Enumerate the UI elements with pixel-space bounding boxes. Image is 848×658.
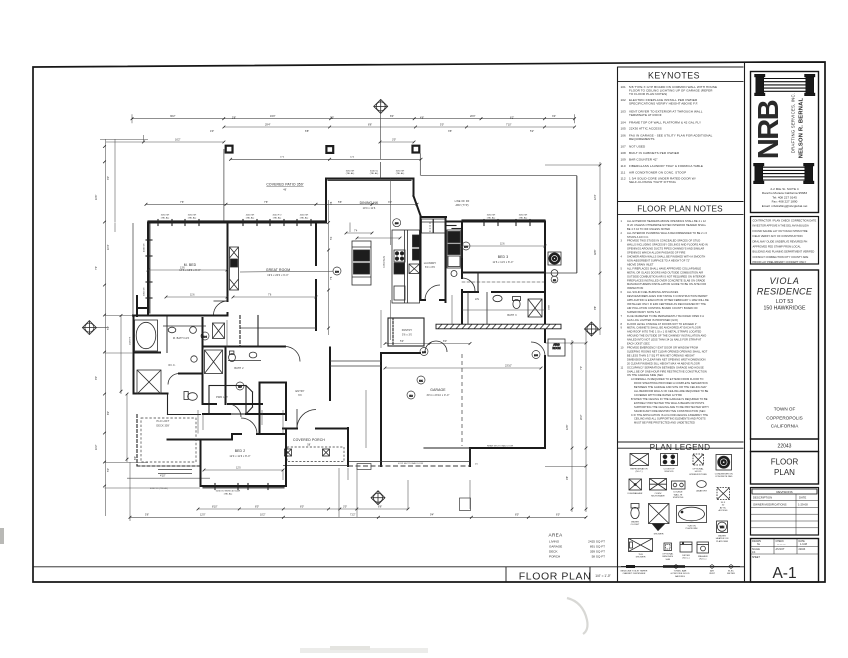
svg-text:HEATER ON: HEATER ON (716, 537, 729, 540)
svg-text:5'0": 5'0" (107, 468, 110, 472)
svg-text:REFRIGERATOR: REFRIGERATOR (630, 468, 648, 471)
svg-text:BAR COUNTER 42": BAR COUNTER 42" (629, 157, 658, 161)
more dim labels left column (107, 176, 110, 472)
svg-text:13'6: 13'6 (180, 266, 185, 269)
svg-text:14'6 x 13'6 x 9'-0": 14'6 x 13'6 x 9'-0" (179, 269, 200, 272)
svg-text:6'0: 6'0 (298, 394, 302, 397)
sheet inner bottom line (33, 566, 745, 568)
patio roof edge right wing (421, 176, 577, 273)
svg-text:BE 4 X 10 TO IDF UNLESS NOTED: BE 4 X 10 TO IDF UNLESS NOTED (627, 228, 670, 231)
rotated window labels left wall (130, 243, 146, 345)
svg-text:APPROVED FED STAMP FROM LOCAL: APPROVED FED STAMP FROM LOCAL (753, 245, 802, 249)
svg-text:107: 107 (621, 145, 627, 149)
svg-text:(N.I.C.): (N.I.C.) (699, 559, 706, 561)
crosshair marker right (585, 322, 599, 336)
patio post3 connector (419, 154, 421, 176)
svg-text:5040 SL: 5040 SL (370, 171, 379, 173)
svg-text:7'4": 7'4" (95, 266, 98, 270)
svg-text:106: 106 (621, 134, 627, 138)
keynote items (621, 85, 718, 184)
porch post 1 (285, 449, 292, 456)
bath3 fixtures (468, 292, 542, 326)
svg-text:PLATFORM: PLATFORM (686, 527, 698, 530)
svg-text:9'4": 9'4" (430, 514, 434, 517)
svg-text:3050 SH: 3050 SH (396, 171, 405, 173)
svg-text:TUB: TUB (638, 554, 643, 556)
svg-text:30'4 x 23'10 x 9'-0": 30'4 x 23'10 x 9'-0" (427, 394, 450, 397)
svg-text:AIR: AIR (710, 570, 714, 573)
hall toilet (184, 392, 197, 401)
svg-text:22043: 22043 (778, 444, 792, 450)
bath2 wall block (179, 347, 226, 405)
svg-text:NAILED INTO NOT LESS THAN 34 2: NAILED INTO NOT LESS THAN 34 2d NAILS FO… (627, 339, 702, 342)
svg-text:4'6": 4'6" (420, 117, 424, 120)
svg-text:2668: 2668 (549, 304, 551, 310)
top dimension line 2 (224, 126, 575, 128)
keynote bubbles (201, 219, 558, 399)
bottom dimension lines (127, 462, 586, 521)
room label bed3 (492, 255, 513, 264)
master bed bottom wall (133, 315, 228, 317)
svg-text:CALIFORNIA: CALIFORNIA (771, 424, 800, 429)
svg-text:TOWEL BAR: TOWEL BAR (674, 570, 687, 573)
svg-text:4040 SH: 4040 SH (300, 215, 309, 217)
condenser symbol (716, 455, 732, 471)
svg-text:CONDENSER ON: CONDENSER ON (715, 474, 733, 476)
svg-text:20'2": 20'2" (580, 414, 583, 420)
m bath block walls (134, 296, 263, 404)
disclaimer box (751, 217, 819, 265)
svg-text:110: 110 (621, 164, 626, 168)
porch slab dashed (287, 447, 344, 462)
dimension tick marks left/bottom/right (103, 145, 601, 519)
svg-text:ELEC: ELEC (728, 571, 734, 573)
svg-text:4030 XO (TBL AL): 4030 XO (TBL AL) (150, 487, 168, 490)
svg-text:4040 F.O: 4040 F.O (273, 215, 282, 217)
svg-text:COVERED WITH FIRE RATED GYP BD: COVERED WITH FIRE RATED GYP BD (634, 394, 682, 397)
svg-text:3050 SH: 3050 SH (487, 215, 496, 217)
svg-text:5030 XO WDW 40 SLDR: 5030 XO WDW 40 SLDR (216, 491, 241, 493)
svg-text:CONCRETE PAD: CONCRETE PAD (715, 475, 733, 478)
svg-text:DATE: DATE (799, 496, 806, 500)
svg-text:LAUNDRY: LAUNDRY (424, 262, 437, 265)
lavatory symbol (697, 481, 707, 488)
svg-text:SHOWER: SHOWER (654, 534, 664, 536)
more top dim labels (210, 117, 534, 133)
dining north wall (326, 179, 446, 223)
hall walls center (203, 347, 348, 467)
svg-text:LIN: LIN (475, 298, 479, 301)
window ticks left wall (146, 240, 152, 298)
svg-text:DECK 359': DECK 359' (156, 425, 170, 428)
svg-text:5'6": 5'6" (145, 514, 149, 517)
bed3 door arc (462, 278, 475, 291)
svg-text:4X12 SECTIONAL DOOR: 4X12 SECTIONAL DOOR (398, 462, 424, 465)
svg-text:EACH JOIST (SEC: EACH JOIST (SEC (627, 343, 650, 346)
svg-text:6'0": 6'0" (556, 514, 560, 517)
bed2 door arc (241, 418, 257, 434)
svg-text:DISHWASHER: DISHWASHER (628, 492, 643, 495)
sheet outer border (33, 62, 825, 582)
scan artifacts (0, 528, 588, 653)
svg-text:APPLICATION & EXECUTION OTHER: APPLICATION & EXECUTION OTHER FEBRUARY 1… (627, 299, 709, 302)
svg-text:ACCESS: ACCESS (719, 509, 729, 512)
laundry walls (421, 217, 446, 302)
svg-text:8'0": 8'0" (515, 514, 519, 517)
svg-text:12'6": 12'6" (566, 424, 569, 430)
patio edge jog (380, 162, 382, 179)
svg-text:5'6": 5'6" (338, 201, 342, 204)
svg-text:PANTRY: PANTRY (402, 329, 413, 332)
top dimension stub left (106, 141, 224, 143)
fireplace unit (230, 247, 239, 290)
svg-text:TOWN OF: TOWN OF (774, 407, 796, 412)
kitchen right appliance column (447, 230, 461, 277)
patio post 3 (411, 145, 420, 154)
svg-text:5'4": 5'4" (400, 340, 404, 343)
tub shower symbol (629, 539, 653, 552)
svg-text:22X30 ATTIC ACCESS: 22X30 ATTIC ACCESS (629, 126, 662, 130)
svg-text:ENTRY: ENTRY (296, 390, 305, 393)
svg-text:BETWEEN THE GARAGE AND SITE OR: BETWEEN THE GARAGE AND SITE OR THE CEILI… (634, 386, 707, 389)
patio post 1 (225, 145, 234, 154)
great room cased opening line (240, 327, 316, 329)
svg-text:DRYER: DRYER (682, 555, 690, 557)
svg-text:WH: WH (720, 525, 724, 529)
svg-text:SELF-CLOSING TIGHT FITTING: SELF-CLOSING TIGHT FITTING (629, 180, 677, 184)
bed3 walls (462, 222, 545, 343)
svg-text:NON-ABSORBENT SURFACE TO A HEI: NON-ABSORBENT SURFACE TO A HEIGHT OF 72" (627, 260, 690, 263)
shower symbol (649, 504, 670, 524)
wc door arc (168, 374, 179, 385)
garage walls (381, 353, 545, 466)
NRB column graphic bottom (754, 164, 814, 184)
svg-text:COVERED PATIO 359': COVERED PATIO 359' (266, 183, 304, 187)
svg-text:7'6": 7'6" (180, 201, 184, 204)
svg-text:1-29-08: 1-29-08 (798, 503, 808, 507)
cooktop symbol (661, 454, 678, 466)
svg-text:OPENINGS AROUND DUCTS PIPES: OPENINGS AROUND DUCTS PIPES CHIMNEYS AND… (627, 248, 704, 251)
svg-text:ALL SOLID FUEL BURNING APPLIAN: ALL SOLID FUEL BURNING APPLIANCES (627, 291, 679, 294)
room label dining (360, 201, 379, 210)
svg-text:OPTIONAL: OPTIONAL (692, 468, 704, 471)
sheet number box (751, 539, 819, 583)
svg-text:COOKTOP: COOKTOP (664, 469, 675, 471)
small marks top-left corner of wall (143, 135, 145, 142)
patio post 2 (325, 145, 334, 154)
svg-text:VIOLA: VIOLA (769, 276, 799, 286)
svg-text:FRAME TOP OF WALL PLATFORM & 4: FRAME TOP OF WALL PLATFORM & 42 GAL FLY (629, 120, 701, 124)
svg-text:NELSON R. BERNAL: NELSON R. BERNAL (799, 97, 805, 158)
air room box (548, 339, 565, 356)
svg-text:CONTRACTOR / PLAN CHECK CORREC: CONTRACTOR / PLAN CHECK CORRECTION DATE (753, 219, 817, 223)
porch line (283, 465, 348, 467)
bed2 window ticks (203, 487, 284, 489)
m bath shower big (137, 370, 161, 394)
legend row 2 (629, 479, 730, 500)
svg-text:3'0": 3'0" (388, 201, 392, 204)
svg-text:5'0": 5'0" (440, 123, 444, 126)
svg-text:WALL HI: WALL HI (674, 493, 683, 496)
garage firewall hatched band (436, 324, 561, 329)
water heater symbol (717, 521, 728, 533)
window ticks bed2 bottom wall (215, 484, 268, 490)
extra dim texture: left bath dims (105, 223, 201, 489)
svg-text:SPECIFICATIONS VERIFY HEIGHT: SPECIFICATIONS VERIFY HEIGHT ABOVE F.F. (629, 102, 698, 106)
svg-text:OUTSIDE COMBUSTION AIR IS NOT: OUTSIDE COMBUSTION AIR IS NOT REQUIRED O… (627, 275, 706, 278)
svg-text:PLO LOFT: PLO LOFT (157, 420, 170, 423)
area table (549, 533, 606, 559)
window labels above back wall (161, 171, 528, 220)
m bath small shower (213, 323, 225, 339)
svg-text:2425 SQ FT: 2425 SQ FT (588, 540, 605, 544)
svg-text:10'4": 10'4" (107, 244, 110, 250)
room label garage (427, 388, 450, 397)
svg-text:6'2": 6'2" (510, 117, 514, 120)
svg-text:A FIREWALL IS REQUIRED TO EXT: A FIREWALL IS REQUIRED TO EXTEND FROM FL… (631, 378, 703, 381)
svg-text:FIBERGLASS LAUNDRY TRAY & FORM: FIBERGLASS LAUNDRY TRAY & FORMICA TABLE (629, 164, 703, 168)
svg-text:METAL OR GLASS DOORS AND OUTSI: METAL OR GLASS DOORS AND OUTSIDE COMBUST… (627, 271, 703, 274)
exterior back wall (148, 222, 545, 223)
svg-text:PORCH: PORCH (549, 555, 560, 559)
dimension line above bedroom wall (146, 203, 417, 205)
svg-text:AIR CONDITIONER ON CONC. STOOP: AIR CONDITIONER ON CONC. STOOP (629, 170, 686, 174)
svg-text:3'0": 3'0" (343, 505, 347, 508)
svg-text:30 X: 30 X (721, 502, 726, 504)
svg-text:1-3-08: 1-3-08 (800, 543, 808, 546)
optional benches symbol (664, 543, 672, 551)
svg-text:SHOWER: SHOWER (636, 557, 646, 559)
svg-text:KEYNOTES: KEYNOTES (648, 71, 700, 81)
svg-text:DESCRIPTION: DESCRIPTION (753, 496, 772, 500)
crosshair marker bottom (371, 491, 385, 505)
dishwasher symbol (629, 479, 642, 490)
svg-text:112: 112 (621, 176, 626, 180)
misc small dims in plan (329, 200, 546, 335)
svg-text:ALL FIREPLACES SHALL HAVE APPR: ALL FIREPLACES SHALL HAVE APPROVED COLLA… (627, 267, 702, 270)
svg-text:4040 SH: 4040 SH (144, 243, 146, 252)
svg-text:GARAGE: GARAGE (430, 388, 446, 392)
svg-text:PLAN: PLAN (774, 468, 795, 477)
svg-text:ATTIC: ATTIC (720, 506, 727, 509)
pantry double door arcs (425, 341, 436, 352)
step pad at garage front (460, 498, 471, 511)
condenser unit (548, 252, 561, 276)
svg-text:46': 46' (283, 189, 287, 192)
svg-text:3050 SH: 3050 SH (144, 287, 146, 296)
oven microwave symbol (650, 479, 667, 491)
right side small dims near garage door (339, 467, 586, 518)
svg-text:9'0": 9'0" (95, 376, 98, 380)
dimension labels bottom/left/right (95, 195, 597, 517)
water closet symbol (631, 504, 639, 509)
svg-text:GARAGE: GARAGE (549, 545, 562, 549)
svg-text:6'0 x 8'0: 6'0 x 8'0 (425, 266, 436, 269)
svg-text:8'0": 8'0" (255, 505, 259, 508)
svg-text:3050 SH: 3050 SH (188, 215, 197, 217)
svg-text:4'10": 4'10" (160, 475, 166, 478)
svg-text:INVESTOR APPOVE A THE DEL AVV: INVESTOR APPOVE A THE DEL AVVA BULIDA (753, 224, 809, 228)
svg-text:3050 SH: 3050 SH (161, 215, 170, 217)
svg-text:HOOD: HOOD (695, 471, 702, 473)
svg-text:(TBL AL): (TBL AL) (224, 492, 233, 495)
master bed left wall (147, 223, 149, 316)
svg-text:11'6 x 11'0 x 8'-0": 11'6 x 11'0 x 8'-0" (492, 261, 513, 264)
svg-text:1/4" = 1'-0": 1/4" = 1'-0" (595, 574, 611, 578)
svg-text:12'0": 12'0" (200, 514, 206, 517)
svg-text:B WHEN THE CEILING IN THE GAR: B WHEN THE CEILING IN THE GARAGE IS REQU… (631, 398, 708, 401)
svg-text:ROOF SHEATHING PROVIDED A COMP: ROOF SHEATHING PROVIDED A COMPLETE SEPAR… (634, 382, 708, 385)
svg-text:TO FLOOR PLAN NOTES): TO FLOOR PLAN NOTES) (629, 92, 667, 96)
great room right wall (315, 223, 317, 331)
svg-text:CABINET DISPENSER: CABINET DISPENSER (623, 572, 646, 575)
svg-text:WALLS INCLUDING SPACES BY CEIL: WALLS INCLUDING SPACES BY CEILINGS AND F… (627, 244, 708, 247)
svg-text:3'0": 3'0" (107, 176, 110, 180)
svg-text:WATER: WATER (631, 521, 639, 524)
svg-text:ABOVE DRAIN INLET: ABOVE DRAIN INLET (627, 264, 654, 267)
svg-text:DEVICES/FIREPLACES FOR TAHOE: DEVICES/FIREPLACES FOR TAHOE X CONSTRUCT… (627, 295, 708, 298)
svg-text:FLOOR LEVEL CHANGE AT DOORS N: FLOOR LEVEL CHANGE AT DOORS NOT TO EXCEE… (627, 323, 697, 326)
bath2 sinks (228, 351, 261, 362)
NRB column graphic top (755, 75, 815, 96)
label covered patio (266, 183, 304, 192)
extra interior dim lines (148, 246, 462, 470)
svg-text:METAL CABINETS SHALL BE ANCHOR: METAL CABINETS SHALL BE ANCHORED AT EACH… (627, 327, 701, 330)
svg-text:BACKING: BACKING (675, 575, 685, 578)
top dimension line 1 (132, 114, 575, 123)
NRB logo box (751, 72, 819, 213)
room label pantry (402, 329, 413, 337)
svg-text:(TBL AL): (TBL AL) (246, 216, 255, 219)
entry door arc (297, 410, 316, 429)
closet lines (240, 316, 258, 347)
svg-text:10'0 x 11'6: 10'0 x 11'6 (363, 207, 376, 210)
hall thin lines (330, 360, 381, 362)
wic sink (191, 356, 197, 362)
svg-text:(TBL AL): (TBL AL) (273, 216, 282, 219)
svg-text:AIR POLLUTION CONTROL BOARD C: AIR POLLUTION CONTROL BOARD COUNTY BOARD… (627, 307, 698, 310)
svg-text:COPPEROPOLIS: COPPEROPOLIS (766, 416, 803, 421)
svg-text:8'0": 8'0" (300, 505, 304, 508)
svg-text:TERMINATE AT ROOF: TERMINATE AT ROOF (629, 113, 662, 117)
svg-text:104: 104 (621, 120, 627, 124)
svg-text:BE LESS THAN 5.7 SQ FT MIN: BE LESS THAN 5.7 SQ FT MIN NET OPENING H… (627, 355, 695, 358)
patio edge line (231, 158, 421, 160)
window sill ticks on back wall (158, 220, 530, 226)
svg-text:11'6": 11'6" (95, 195, 98, 200)
svg-text:SHB: SHB (666, 559, 671, 561)
sliding door at kitchen hall (446, 226, 462, 229)
refrigerator symbol (630, 454, 649, 466)
svg-text:AND ROOF INTO THE 1 SI x 1 IS: AND ROOF INTO THE 1 SI x 1 IS METAL STRA… (627, 331, 702, 334)
svg-text:BUILT IN CABINETS PER OWNER: BUILT IN CABINETS PER OWNER (629, 151, 680, 155)
svg-text:891 SQ FT: 891 SQ FT (590, 545, 605, 549)
svg-text:AROUND THE OUTSIDE OF THE CHIM: AROUND THE OUTSIDE OF THE CHIMNEY INSTAL… (627, 335, 706, 338)
svg-text:VENT: VENT (709, 573, 715, 575)
svg-text:19'4 x 20'0 x 9'-0": 19'4 x 20'0 x 9'-0" (267, 274, 288, 277)
dryer symbol (680, 542, 692, 552)
dimension labels top (170, 115, 556, 204)
svg-text:FLOOR PLAN NOTES: FLOOR PLAN NOTES (637, 205, 723, 214)
svg-text:PROVIDE TWO STUDS IN CONCEALED: PROVIDE TWO STUDS IN CONCEALED SPACES OF… (627, 240, 700, 243)
svg-text:FIELD VERIFY ANY OF CONSTRUCT: FIELD VERIFY ANY OF CONSTRUCTION (753, 234, 803, 238)
svg-text:12'0: 12'0 (236, 466, 241, 469)
tub on platform symbol (677, 506, 707, 523)
svg-text:FIREPLACES INSTALLED OVER CONC: FIREPLACES INSTALLED OVER CONCRETE SLAB … (627, 279, 706, 282)
svg-text:OWNER MODIFICATIONS: OWNER MODIFICATIONS (753, 503, 787, 507)
svg-text:DINING NK: DINING NK (360, 201, 379, 205)
svg-text:NOT USED: NOT USED (629, 145, 646, 149)
svg-text:AREA: AREA (549, 533, 564, 538)
svg-text:101: 101 (621, 85, 627, 89)
svg-text:7'0": 7'0" (580, 366, 583, 370)
svg-text:359 SQ FT: 359 SQ FT (590, 550, 605, 554)
svg-text:FLUE DIAMETER TO BE PERMANENTL: FLUE DIAMETER TO BE PERMANENTLY BLOCKED … (627, 315, 704, 318)
svg-text:108: 108 (621, 151, 627, 155)
rotated labels right wall (549, 304, 551, 310)
svg-text:BENCHES: BENCHES (663, 556, 674, 558)
svg-text:9'8": 9'8" (594, 306, 597, 310)
washer dryer (422, 219, 446, 233)
svg-text:C IF THE APPLICATION IS A FLO: C IF THE APPLICATION IS A FLOOR-CEILING … (631, 414, 708, 417)
address block (762, 187, 808, 208)
room label covered porch (293, 438, 325, 447)
svg-text:150 HAWKRIDGE: 150 HAWKRIDGE (764, 306, 806, 312)
svg-text:SIGNIFICANT FIRE RESTRICTIVE C: SIGNIFICANT FIRE RESTRICTIVE CONSTRUCTIO… (634, 410, 706, 413)
svg-text:KITCHEN: KITCHEN (383, 256, 386, 268)
svg-text:TUB ON: TUB ON (687, 526, 696, 528)
svg-text:PLAN LEGEND: PLAN LEGEND (650, 443, 711, 452)
svg-text:23'10": 23'10" (505, 364, 512, 367)
svg-text:M. BED: M. BED (184, 263, 197, 267)
svg-text:FLOOR PLAN: FLOOR PLAN (519, 571, 592, 583)
svg-text:CLOSET: CLOSET (631, 524, 640, 526)
window ticks on back wall (148, 220, 545, 221)
right column divider (744, 62, 746, 582)
svg-text:4'6": 4'6" (566, 476, 569, 480)
bottom extra labels (145, 514, 560, 517)
svg-text:CEILING AND ALL SUPPORTING ELE: CEILING AND ALL SUPPORTING ELEMENTS AND … (634, 418, 706, 421)
svg-text:ALL BEDROOM WALLS OF CEILING: ALL BEDROOM WALLS OF CEILING ARE REQUIRE… (634, 390, 709, 393)
svg-text:OPENINGS WHICH ALLOW PASSAGE O: OPENINGS WHICH ALLOW PASSAGE OF FIRE (627, 252, 686, 255)
svg-text:MICROWAVE: MICROWAVE (651, 495, 665, 498)
svg-text:3050 SH: 3050 SH (519, 215, 528, 217)
interior dim strings middle (166, 179, 545, 449)
svg-text:SHALL BE OF ONE-HOUR FIRE REST: SHALL BE OF ONE-HOUR FIRE RESTRICTIVE CO… (627, 370, 707, 373)
svg-text:W/HOOD: W/HOOD (664, 471, 674, 473)
porch walls (283, 428, 348, 430)
svg-text:RESIDENCE: RESIDENCE (757, 287, 813, 297)
svg-text:PRIOR LAY PRELIMINARY CONCEPT: PRIOR LAY PRELIMINARY CONCEPT ONLY (753, 260, 807, 264)
sheet title box (751, 452, 819, 485)
washer symbol (697, 542, 709, 553)
notes column left divider (617, 67, 619, 582)
svg-text:ALL EXTERIOR HEADERS ABOVE OPE: ALL EXTERIOR HEADERS ABOVE OPENINGS SHAL… (627, 220, 706, 223)
svg-text:7'6": 7'6" (264, 201, 268, 204)
svg-text:58': 58' (307, 444, 311, 447)
room label entry (296, 390, 305, 397)
bed3 closet lines (462, 273, 545, 293)
svg-text:20 CLEAR FINISHED SILL HEIGHT: 20 CLEAR FINISHED SILL HEIGHT MAX 44 ABO… (627, 362, 700, 365)
right vertical dimension lines (545, 162, 601, 512)
master bed right wall (227, 223, 229, 316)
svg-text:BED 2: BED 2 (235, 449, 246, 453)
svg-text:SLEEPING ROOMS NET CLEAR OPEN: SLEEPING ROOMS NET CLEAR OPENED OPENING … (627, 351, 708, 354)
svg-text:WATER: WATER (718, 535, 726, 538)
svg-text:SHOWER AREA WALLS SHALL BE FIN: SHOWER AREA WALLS SHALL BE FINISHED WITH… (627, 256, 705, 259)
svg-text:(TBL AL): (TBL AL) (487, 216, 496, 219)
svg-text:105: 105 (621, 126, 627, 130)
